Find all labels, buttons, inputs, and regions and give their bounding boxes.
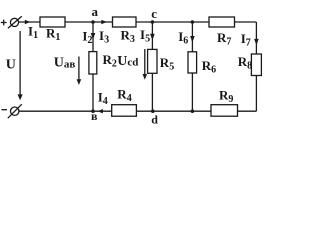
svg-text:d: d (151, 113, 158, 127)
svg-text:I1: I1 (28, 23, 38, 41)
resistor R6 (188, 52, 197, 73)
svg-text:U: U (6, 58, 16, 73)
node a (91, 20, 95, 24)
svg-text:R6: R6 (202, 58, 216, 76)
arrow I3 (101, 20, 107, 24)
terminal top clamp (8, 16, 22, 28)
resistor R7 (209, 17, 235, 27)
svg-text:Uав: Uав (54, 56, 76, 71)
wire bottom rail (19, 110, 256, 112)
node d (151, 109, 155, 113)
wire right branch (255, 22, 257, 111)
arrow I1 (25, 20, 31, 24)
wire branch c-d (R5) (151, 22, 153, 111)
svg-text:R2: R2 (103, 52, 117, 70)
arrow I6 (190, 36, 195, 42)
svg-text:I5: I5 (140, 27, 150, 45)
svg-text:R9: R9 (219, 88, 233, 106)
resistor R5 (148, 49, 157, 73)
svg-text:R5: R5 (160, 55, 174, 73)
arrow Ucd voltage (143, 49, 148, 80)
node c (151, 20, 155, 24)
arrow Uav voltage (77, 57, 82, 86)
svg-text:R1: R1 (46, 25, 60, 43)
resistor R4 (112, 105, 137, 117)
svg-text:Ucd: Ucd (117, 54, 138, 69)
arrow I2 (91, 33, 96, 39)
svg-text:I2: I2 (82, 29, 92, 47)
resistor R9 (211, 105, 238, 117)
svg-text:a: a (92, 4, 99, 19)
node junction R6 top (191, 20, 195, 24)
svg-text:I3: I3 (99, 28, 109, 46)
resistor R3 (113, 17, 137, 27)
wire top rail (19, 21, 257, 23)
terminal plus symbol (1, 20, 7, 26)
svg-text:I6: I6 (178, 29, 188, 47)
wire branch a-v (R2) (92, 22, 94, 111)
arrow U source voltage (18, 31, 23, 100)
terminal bottom clamp (8, 104, 22, 118)
svg-text:R4: R4 (117, 86, 131, 104)
wire branch R6 (191, 22, 193, 111)
svg-text:I7: I7 (241, 31, 251, 49)
svg-text:c: c (151, 6, 157, 21)
svg-text:R8: R8 (238, 54, 252, 72)
arrow I4 (97, 109, 103, 113)
svg-text:R7: R7 (217, 30, 231, 48)
arrow I7 (254, 39, 259, 45)
resistor R1 (40, 17, 65, 27)
svg-text:R3: R3 (121, 27, 135, 45)
resistor R2 (89, 52, 97, 74)
svg-text:I4: I4 (98, 90, 108, 108)
node v (91, 109, 95, 113)
node junction R6 bottom (191, 109, 195, 113)
svg-text:в: в (91, 109, 98, 123)
resistor R8 (251, 54, 261, 76)
terminal minus symbol (2, 109, 8, 111)
arrow I5 (150, 34, 155, 40)
